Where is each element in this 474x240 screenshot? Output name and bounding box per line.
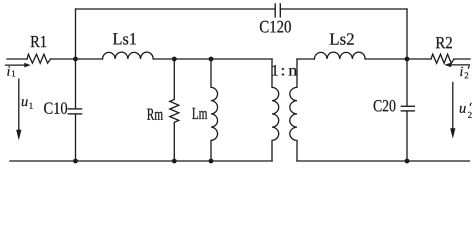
voltage arrow u1 <box>16 79 21 141</box>
inductor Lm <box>211 59 218 161</box>
label R2 <box>436 37 452 48</box>
wire input stub left <box>7 58 27 60</box>
transformer primary winding <box>272 59 279 161</box>
wire bottom rail left <box>10 160 272 162</box>
wire Ls2 to R2 <box>365 58 431 60</box>
capacitor C120 <box>275 4 280 17</box>
node junction dot left top <box>73 57 78 62</box>
wire output stub right <box>454 58 470 60</box>
capacitor C20 <box>401 106 414 111</box>
label R1 <box>31 36 46 47</box>
node junction dot left bottom <box>73 159 78 164</box>
wire top rail left segment <box>76 8 275 10</box>
label Lm <box>192 108 207 119</box>
resistor R1 <box>27 54 51 63</box>
inductor Ls1 <box>103 52 154 59</box>
node junction dot Rm bottom <box>172 159 177 164</box>
voltage arrow u2 <box>450 82 455 139</box>
current arrow i2 <box>444 63 470 68</box>
node junction dot right bottom <box>405 159 410 164</box>
prime mark of i2 <box>468 66 469 69</box>
wire right vertical above C20 <box>406 9 408 106</box>
label i2' <box>460 67 468 79</box>
resistor Rm <box>170 59 179 161</box>
label Ls1 <box>113 33 136 44</box>
label Rm <box>147 109 163 120</box>
prime mark of u2 <box>470 103 471 106</box>
transformer secondary winding <box>290 59 297 161</box>
label 1:n transformer ratio <box>273 65 298 76</box>
wire bottom rail right <box>297 160 470 162</box>
label C20 <box>374 100 396 111</box>
node junction dot Lm bottom <box>209 159 214 164</box>
wire left vertical below C10 <box>75 114 77 161</box>
node junction dot right top <box>405 57 410 62</box>
inductor Ls2 <box>314 52 365 59</box>
capacitor C10 <box>68 109 81 114</box>
wire top rail right segment <box>281 8 407 10</box>
wire secondary to Ls2 <box>297 58 314 60</box>
current arrow i1 <box>5 63 31 68</box>
node junction dot Rm top <box>172 57 177 62</box>
label u1 <box>22 99 33 108</box>
label Ls2 <box>330 33 354 44</box>
label u2' <box>460 106 472 118</box>
resistor R2 <box>431 54 454 63</box>
wire Ls1 to transformer <box>153 58 272 60</box>
label i1 <box>7 66 15 76</box>
label C120 <box>260 21 291 33</box>
wire R1 to Ls1 <box>51 58 103 60</box>
wire right vertical below C20 <box>406 111 408 161</box>
node junction dot Lm top <box>209 57 214 62</box>
wire left vertical above C10 <box>75 9 77 109</box>
label C10 <box>44 102 67 113</box>
